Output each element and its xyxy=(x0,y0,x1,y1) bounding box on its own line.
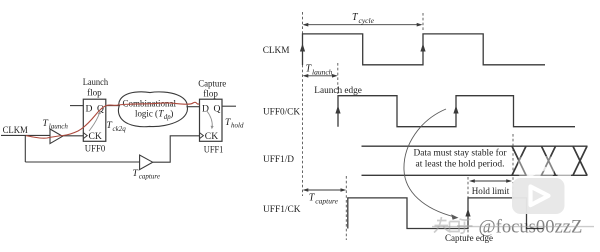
label T_hold xyxy=(225,117,244,129)
wire buffer to UFF0 CK xyxy=(63,135,84,137)
svg-text:cycle: cycle xyxy=(359,16,375,25)
big arc launch-to-capture xyxy=(404,109,454,217)
label T_launch (timing) xyxy=(306,64,333,77)
note Data must stay stable xyxy=(414,148,508,170)
label Combinational logic (T_dp) xyxy=(123,99,177,121)
dashed line launch edge xyxy=(337,63,339,94)
svg-text:Data must stay stable for: Data must stay stable for xyxy=(414,148,508,159)
watermark strikethrough line xyxy=(432,226,594,228)
dashed line first capture clock edge xyxy=(345,176,347,240)
dashed line hold limit / data change xyxy=(512,134,514,199)
data change hatch X1 xyxy=(512,146,526,175)
label T_capture xyxy=(133,168,160,181)
T_cycle measure arrow xyxy=(303,23,423,27)
svg-text:CK: CK xyxy=(89,131,102,142)
svg-text:UFF1: UFF1 xyxy=(204,145,224,156)
data bus rail top UFF1/D xyxy=(362,145,588,147)
wire junction vertical branch xyxy=(24,135,26,162)
arrow on CLKM rising edge 2 xyxy=(420,44,425,52)
flip-flop UFF0 box xyxy=(83,99,106,141)
svg-text:launch: launch xyxy=(49,122,69,130)
watermark 乎 glyph xyxy=(457,219,473,233)
label T_cycle xyxy=(352,12,375,25)
faded rail segments between hatches xyxy=(529,172,541,178)
T_capture measure arrow (timing) xyxy=(303,188,347,192)
wire Q of UFF0 to cloud xyxy=(106,105,120,107)
dashed line capture edge / hold start xyxy=(467,177,469,240)
waveform UFF0/CK xyxy=(338,96,575,127)
arrow on UFF1/CK capture edge xyxy=(465,209,470,217)
svg-text:D: D xyxy=(86,103,93,114)
wire CLKM main horizontal xyxy=(1,134,50,136)
wire cloud to UFF1 D xyxy=(187,106,200,108)
svg-text:hold: hold xyxy=(231,121,244,129)
svg-text:T: T xyxy=(43,118,49,129)
clock wedge UFF1 xyxy=(200,133,204,139)
combinational logic cloud xyxy=(118,92,187,127)
svg-text:Launch edge: Launch edge xyxy=(314,85,362,96)
svg-text:T: T xyxy=(133,168,139,179)
wire bottom run to capture buffer xyxy=(25,161,139,163)
svg-text:flop: flop xyxy=(87,87,102,98)
flip-flop UFF1 box xyxy=(200,99,223,141)
video play button xyxy=(512,178,565,214)
wire Q output stub UFF1 xyxy=(222,105,236,107)
label T_ck2q xyxy=(107,120,127,133)
svg-text:at least the hold period.: at least the hold period. xyxy=(416,160,505,170)
svg-text:ck2q: ck2q xyxy=(113,125,127,133)
wire D input stub UFF0 xyxy=(70,105,83,107)
waveform CLKM xyxy=(303,34,546,65)
ck2q arrow inside UFF0 xyxy=(89,113,100,132)
buffer T_capture xyxy=(140,155,153,170)
label Launch flop xyxy=(83,77,109,98)
svg-text:UFF1/D: UFF1/D xyxy=(263,154,294,165)
svg-text:CLKM: CLKM xyxy=(263,45,290,56)
ck2q arrow inside UFF1 xyxy=(207,111,213,128)
dashed line at second CLKM edge (T_cycle end) xyxy=(422,13,424,32)
svg-text:UFF0/CK: UFF0/CK xyxy=(263,107,300,118)
T_launch measure arrow xyxy=(303,74,338,78)
watermark 知 glyph xyxy=(434,217,459,233)
svg-text:capture: capture xyxy=(139,173,160,181)
svg-text:capture: capture xyxy=(315,197,338,206)
dashed reference line at first CLKM edge xyxy=(302,12,304,196)
waveform UFF1/CK xyxy=(348,198,543,229)
ghost play overlay xyxy=(518,156,554,178)
svg-text:UFF1/CK: UFF1/CK xyxy=(263,204,301,215)
data change hatch X2 xyxy=(542,146,556,175)
svg-text:UFF0: UFF0 xyxy=(85,144,106,155)
svg-text:launch: launch xyxy=(312,68,333,77)
wire capture buffer to UFF1 CK xyxy=(153,136,200,162)
svg-text:logic (: logic ( xyxy=(135,109,158,120)
arrow on UFF0/CK rising edge 2 xyxy=(453,106,458,114)
data bus rail bottom UFF1/D xyxy=(362,174,588,176)
clock wedge UFF0 xyxy=(83,133,87,139)
svg-text:flop: flop xyxy=(203,88,218,99)
svg-text:Q: Q xyxy=(214,103,221,114)
red critical path xyxy=(26,102,199,138)
data change hatch X3 xyxy=(573,146,587,175)
label Capture flop xyxy=(198,79,226,100)
label T_launch xyxy=(43,118,69,130)
arrow on UFF0/CK rising edge 1 xyxy=(335,106,340,114)
svg-text:CK: CK xyxy=(205,131,218,142)
svg-text:): ) xyxy=(170,109,173,120)
arrow on CLKM rising edge 1 xyxy=(300,44,305,52)
svg-text:CLKM: CLKM xyxy=(3,125,29,136)
label T_capture (timing) xyxy=(309,193,339,206)
svg-text:Hold limit: Hold limit xyxy=(472,186,510,197)
buffer T_launch xyxy=(50,129,63,144)
Hold limit measure arrow xyxy=(469,179,512,183)
